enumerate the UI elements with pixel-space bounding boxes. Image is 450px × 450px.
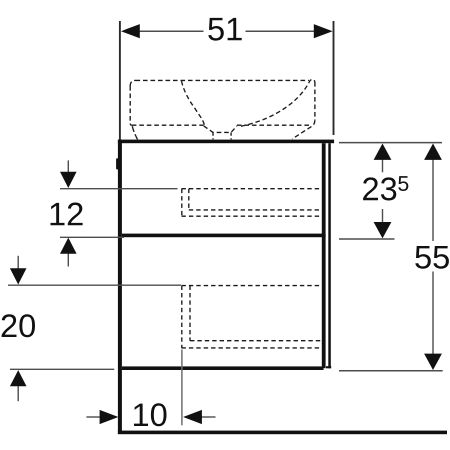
label 51 — [208, 18, 241, 41]
arrow 55 down — [424, 354, 442, 370]
label 5 superscript — [398, 176, 408, 191]
label 55 — [415, 246, 449, 269]
wire 20 upper arrow tail — [17, 256, 19, 271]
arrow 55 up — [424, 144, 442, 160]
arrow 12 down — [60, 172, 77, 188]
basin drain left pipe — [212, 132, 214, 139]
bottom drawer dashed inner bottom line — [190, 340, 322, 342]
basin right edge — [314, 82, 316, 120]
bottom drawer dashed outer bottom line — [182, 347, 323, 349]
wire 51 dimension line right segment — [246, 30, 317, 32]
top drawer dashed top line — [182, 188, 323, 190]
cabinet right outer panel bottom cap — [326, 366, 331, 368]
label 10 — [134, 403, 167, 426]
cabinet bottom panel — [122, 366, 324, 370]
basin inner bowl right sweep — [241, 79, 315, 126]
arrow 23.5 down — [374, 222, 392, 238]
basin rim bottom line left part — [132, 124, 204, 126]
wire 23.5/55 top extension line — [339, 142, 442, 144]
bottom drawer dashed left edge — [181, 286, 183, 348]
cabinet divider line — [122, 234, 326, 238]
wire 23.5 lower tail — [382, 209, 384, 224]
arrow 20 down — [10, 268, 27, 284]
wire 23.5 upper tail — [382, 157, 384, 172]
wire 55 upper tail — [432, 157, 434, 241]
wire 55 lower tail — [432, 272, 434, 356]
wire 23.5 bottom extension line — [339, 238, 395, 240]
wire 10 right arrow tail — [201, 416, 216, 418]
wire 12 top extension line — [60, 188, 178, 190]
bottom drawer dashed top line — [182, 285, 323, 287]
wire 12 bottom extension line — [60, 236, 124, 238]
wire 51 right extension line — [333, 21, 335, 135]
arrow 20 up — [10, 370, 27, 386]
wire 10 left arrow tail — [86, 416, 101, 418]
basin drain trapezoid — [204, 126, 237, 132]
wire 12 upper arrow tail — [67, 160, 69, 174]
basin drain right pipe — [230, 132, 232, 139]
wire 10 vertical extension line — [181, 350, 183, 426]
basin top edge — [136, 79, 309, 81]
cabinet top panel — [118, 140, 334, 144]
wire 20 bottom extension line — [10, 368, 114, 370]
arrow 51 left — [121, 24, 140, 38]
hinge bump on left edge — [116, 158, 118, 169]
basin top-left corner — [130, 80, 135, 86]
basin rim bottom line right part — [237, 124, 310, 126]
basin right foot — [292, 120, 315, 139]
top drawer dashed bottom line — [182, 215, 323, 217]
arrow 10 pointing right — [100, 410, 119, 424]
wire 55 bottom extension line — [339, 370, 443, 372]
wire 51 left extension line — [119, 21, 121, 140]
arrow 12 up — [60, 238, 77, 254]
floor line — [118, 431, 447, 435]
top drawer dashed left edge — [181, 189, 183, 217]
arrow 23.5 up — [374, 144, 392, 160]
wire 20 lower arrow tail — [17, 385, 19, 401]
label 12 — [51, 203, 83, 226]
label 23 — [363, 177, 396, 200]
basin left foot — [132, 126, 137, 139]
wire 51 dimension line left segment — [137, 30, 204, 32]
wire 12 lower arrow tail — [67, 252, 69, 267]
cabinet right outer panel line — [328, 143, 331, 368]
arrow 10 pointing left — [183, 410, 202, 424]
wire 20 top extension line — [8, 284, 181, 286]
bottom drawer dashed inner-left edge — [189, 286, 191, 341]
arrow 51 right — [314, 24, 333, 38]
label 20 — [2, 314, 35, 337]
top drawer dashed inner-left edge — [188, 189, 190, 210]
top drawer dashed middle line — [189, 209, 322, 211]
basin inner bowl left wall — [182, 81, 205, 125]
cabinet right side edge — [322, 143, 326, 368]
basin left edge — [130, 86, 132, 125]
cabinet left side panel — [118, 140, 122, 434]
